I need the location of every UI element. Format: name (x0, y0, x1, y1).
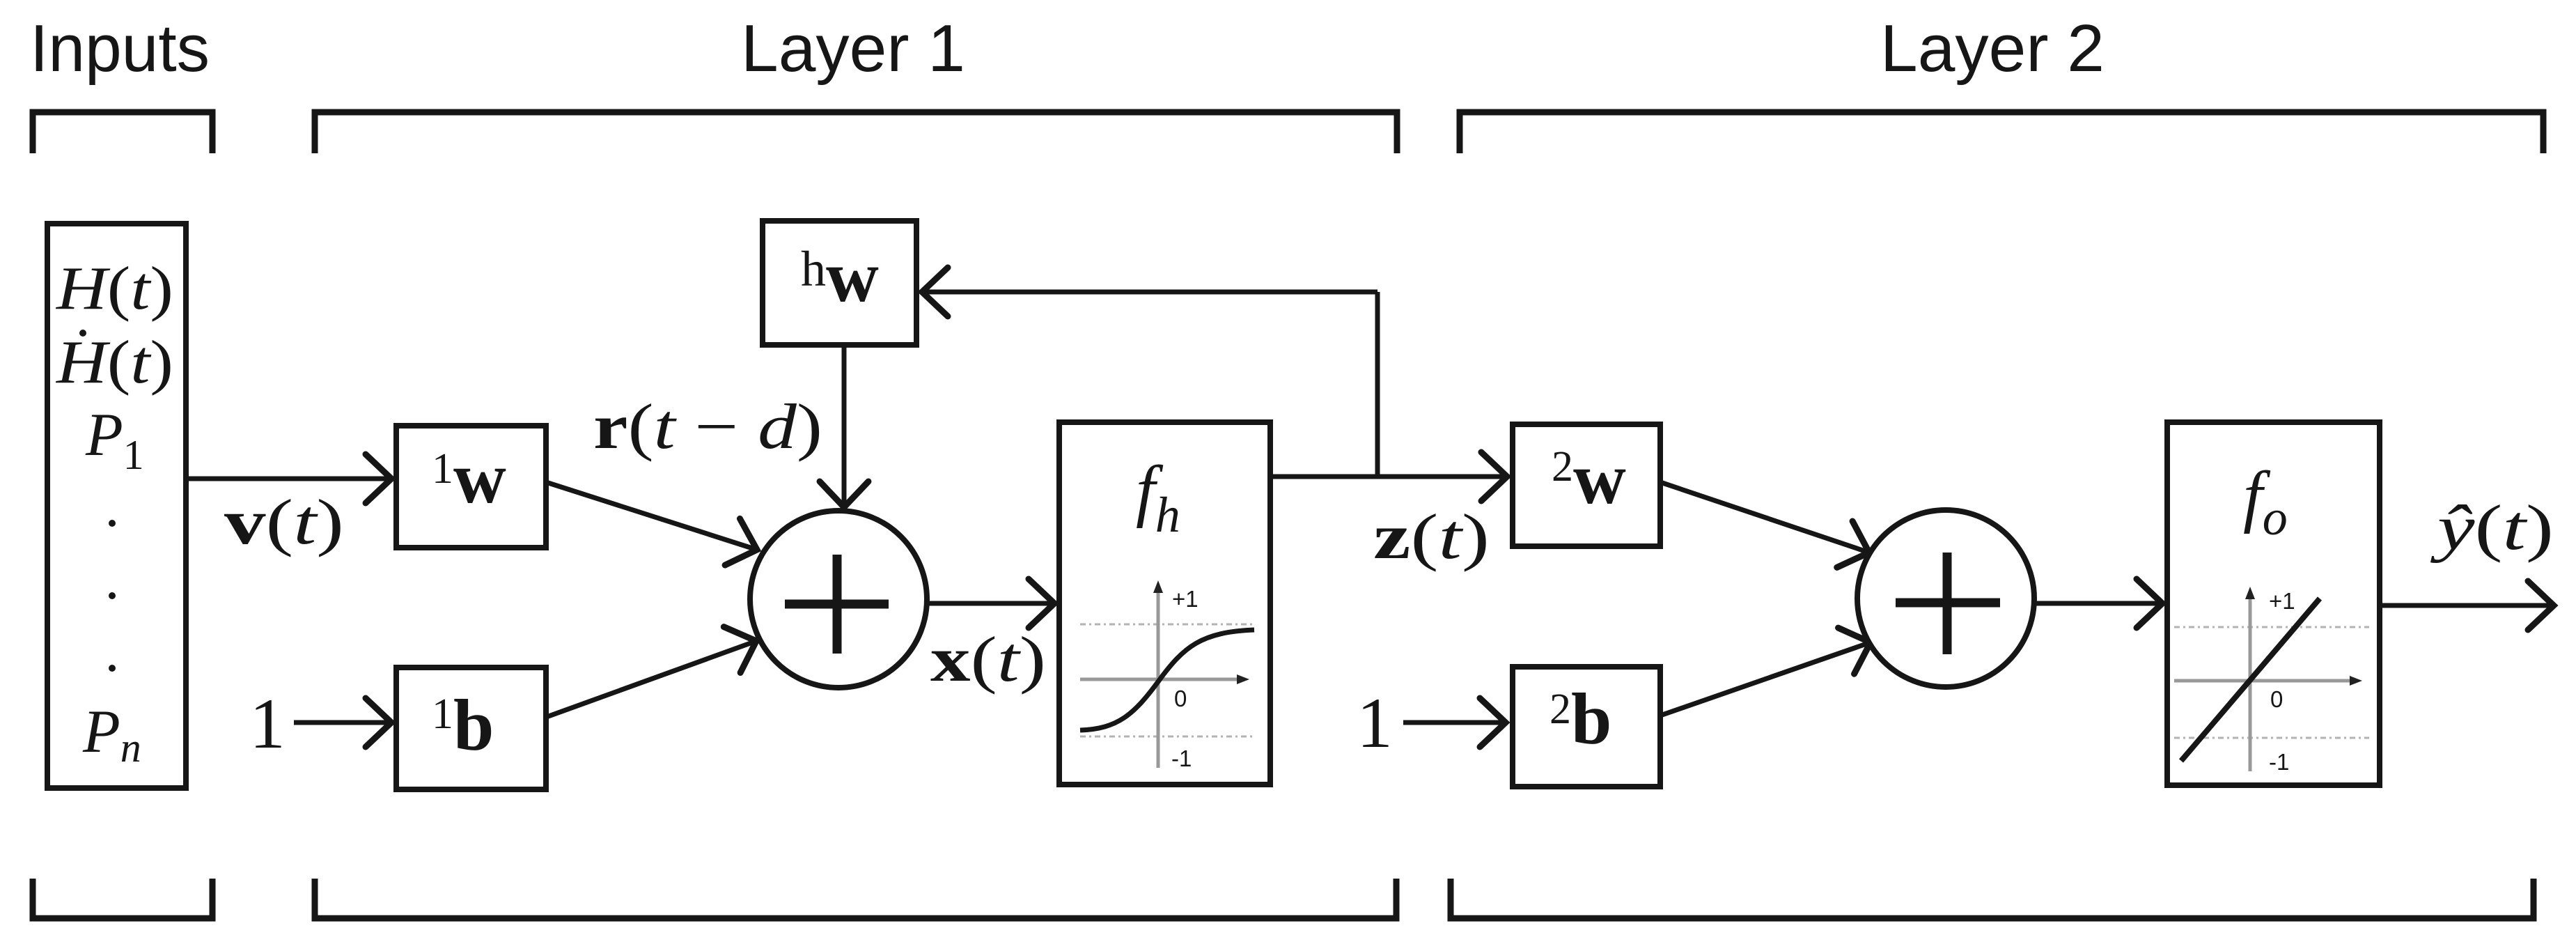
wire 1 to 2b (1403, 720, 1506, 725)
wire 2b to sum2 (1660, 642, 1871, 716)
fo linear line (2181, 599, 2320, 761)
svg-text:+1: +1 (2269, 588, 2295, 614)
bottom bracket Inputs (33, 879, 212, 918)
fo graph dotted -1 (2174, 737, 2369, 739)
top bracket Inputs (33, 112, 212, 153)
svg-text:Layer 1: Layer 1 (741, 11, 965, 86)
top bracket Layer 2 (1460, 112, 2543, 153)
bottom bracket Layer 1 (315, 879, 1396, 918)
box 1w (396, 426, 546, 548)
fo graph v axis (2249, 594, 2252, 771)
box fo (2167, 422, 2380, 785)
wire fh out to 2w (1270, 474, 1507, 479)
fh graph dotted -1 (1080, 736, 1254, 738)
svg-text:-1: -1 (1171, 746, 1192, 771)
wire 1b to sum1 (545, 641, 756, 718)
top bracket Layer 1 (315, 112, 1397, 153)
fh graph h axis (1080, 678, 1241, 681)
wire sum1 to fh (927, 601, 1054, 606)
svg-text:z(t): z(t) (1373, 501, 1490, 572)
fo graph dotted +1 (2174, 626, 2369, 628)
sum circle 2 (1857, 510, 2034, 687)
wire input to 1w (186, 477, 391, 481)
fh sigmoid (1080, 630, 1254, 730)
svg-text:0: 0 (2270, 686, 2283, 712)
box hw (763, 221, 916, 345)
bottom bracket Layer 2 (1451, 879, 2534, 918)
svg-text:Layer 2: Layer 2 (1880, 11, 2105, 86)
svg-text:r(t − d): r(t − d) (593, 391, 822, 462)
svg-text:1: 1 (249, 684, 286, 764)
dots (109, 520, 116, 527)
svg-text:-1: -1 (2269, 749, 2289, 775)
svg-text:0: 0 (1174, 686, 1187, 711)
wire 2w to sum2 (1660, 482, 1869, 553)
fh graph dotted +1 (1080, 624, 1254, 626)
wire sum2 to fo (2034, 601, 2162, 606)
wire 1w to sum1 (546, 482, 757, 550)
svg-text:x(t): x(t) (930, 624, 1046, 695)
svg-text:1: 1 (1357, 684, 1393, 763)
svg-text:Inputs: Inputs (30, 11, 210, 86)
fh graph v axis (1157, 588, 1160, 768)
svg-text:H(t): H(t) (56, 329, 173, 396)
svg-text:+1: +1 (1172, 586, 1199, 612)
box fh (1059, 422, 1270, 785)
wire 1 to 1b (294, 720, 391, 725)
box 2w (1513, 424, 1660, 546)
svg-text:v(t): v(t) (224, 486, 344, 557)
sum circle 1 (750, 511, 927, 688)
fo graph h axis (2174, 679, 2354, 683)
feedback vertical (1375, 292, 1380, 477)
wire fo out (2380, 603, 2554, 608)
input vector box (47, 224, 186, 788)
box 2b (1513, 667, 1660, 787)
svg-text:ŷ(t): ŷ(t) (2430, 492, 2554, 563)
feedback horizontal to hw (922, 290, 1377, 295)
svg-text:H(t): H(t) (56, 255, 173, 323)
box 1b (396, 667, 546, 789)
wire hw down to sum1 (842, 345, 847, 507)
